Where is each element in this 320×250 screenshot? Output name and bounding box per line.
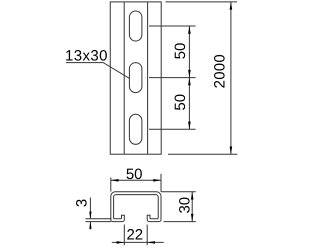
dimension line 30 (section height) xyxy=(191,192,193,222)
dimension line 2000 (rail length) xyxy=(230,2,232,154)
slot 2 centerline extension xyxy=(149,77,196,79)
slot 2 (13x30 oblong hole) xyxy=(129,63,142,93)
rail outline (front view) xyxy=(110,2,161,154)
svg-text:2000: 2000 xyxy=(212,54,229,88)
extension line top for 30 xyxy=(161,191,196,193)
arrow down at bottom of 50 slot pitch 2 xyxy=(188,122,191,130)
dimension line 22 (opening width) xyxy=(112,241,164,243)
arrow right toward 22 left edge xyxy=(117,241,125,244)
rail bend line right xyxy=(147,2,149,154)
arrow right of section 50 xyxy=(153,179,161,182)
svg-text:50: 50 xyxy=(126,166,143,183)
arrow left of section 50 xyxy=(111,179,119,182)
extension line bottom for 30 xyxy=(164,221,196,223)
arrow bottom of 30 xyxy=(191,214,194,222)
dimension line 3 upper segment xyxy=(89,198,91,219)
arrow down at bottom of 2000 xyxy=(230,147,233,155)
dimension line 50 (section width) xyxy=(111,179,161,181)
svg-text:3: 3 xyxy=(73,199,90,207)
extension line top for 2000 xyxy=(166,1,238,3)
arrow down at bottom of 50 slot pitch 1 xyxy=(188,70,191,78)
svg-text:13x30: 13x30 xyxy=(65,47,108,64)
svg-text:50: 50 xyxy=(172,43,189,60)
arrow down toward 3 upper line xyxy=(89,212,91,219)
slot 1 centerline extension xyxy=(149,25,196,27)
leader line for 13x30 label xyxy=(66,63,129,79)
slot 1 (13x30 oblong hole) xyxy=(129,11,142,41)
extension line right for section width 50 xyxy=(160,174,162,192)
arrow left toward 22 right edge xyxy=(147,241,155,244)
svg-text:30: 30 xyxy=(177,197,194,214)
dimension line 50 (upper slot pitch) xyxy=(188,26,190,78)
extension line bottom for 2000 xyxy=(168,153,237,155)
extension line lower for thickness 3 xyxy=(86,221,112,223)
slot 3 centerline extension xyxy=(149,128,196,130)
svg-text:22: 22 xyxy=(126,226,143,243)
dimension line 3 lower segment xyxy=(89,222,91,230)
arrow up at top of 50 slot pitch 1 xyxy=(188,26,191,34)
extension line left for section width 50 xyxy=(110,178,112,192)
slot 3 (13x30 oblong hole) xyxy=(129,114,142,144)
dimension line 50 (lower slot pitch) xyxy=(188,78,190,130)
arrow up at top of 50 slot pitch 2 xyxy=(188,78,191,86)
svg-text:50: 50 xyxy=(172,94,189,111)
extension line right for opening 22 xyxy=(146,225,148,246)
extension line left for opening 22 xyxy=(123,225,125,246)
extension line upper for thickness 3 xyxy=(86,218,112,220)
rail bend line left xyxy=(123,2,125,154)
profile cross-section outline xyxy=(111,192,161,222)
arrow top of 30 xyxy=(191,192,194,200)
arrow up toward 3 lower line xyxy=(89,222,91,229)
arrow up at top of 2000 xyxy=(230,2,233,10)
